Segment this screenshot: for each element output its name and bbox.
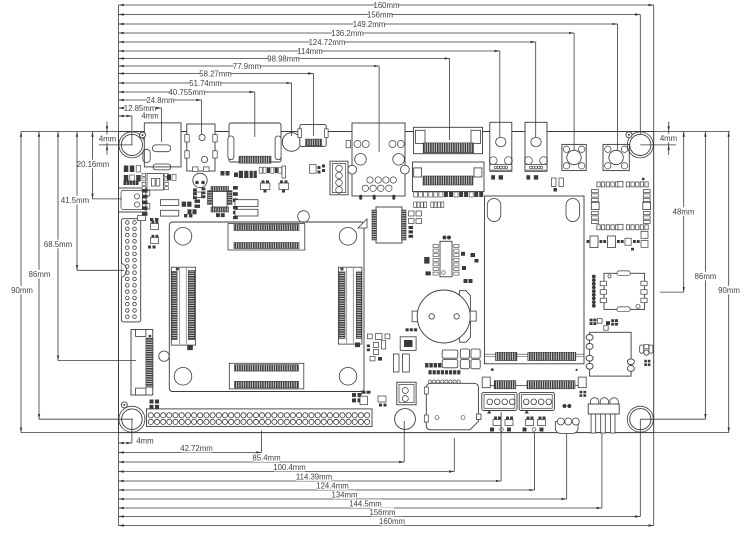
svg-text:124.4mm: 124.4mm [316,482,349,491]
svg-text:90mm: 90mm [718,286,740,295]
LVDS FPC connector J7 [414,127,483,153]
dimension 24.8mm top [119,99,202,101]
dimension 156mm top [119,14,641,16]
dimension 41.5mm left [76,132,78,271]
parts right of module bottom-right [368,334,373,339]
corner triangle mark [358,219,367,228]
dimension 40.755mm top [119,91,255,93]
2x16 pin header J12 [121,219,140,322]
fiducial bottom-left [121,402,127,408]
svg-text:114mm: 114mm [297,47,322,56]
svg-text:156mm: 156mm [370,508,396,517]
capacitor C6 [322,165,325,168]
dimension 4mm left [106,122,108,132]
left dimension extension line at board top [21,131,119,133]
column parts [409,226,414,229]
module hole BR [339,368,357,386]
left cluster resistors [124,166,129,173]
svg-text:4mm: 4mm [136,437,153,446]
FPC connector bottom-left J13 [131,330,153,396]
svg-text:86mm: 86mm [29,270,51,279]
audio jack J2 [187,124,215,171]
LVDS FPC connector J8 [413,162,485,192]
MCU QFP U5 [211,187,229,192]
resistor pair R2 [250,171,253,178]
small IC U6 [147,174,164,191]
small hole left of module [159,351,169,361]
dimension 136.2mm top [119,32,575,34]
pads near header right [352,393,356,397]
mounting hole top-right [627,132,653,158]
dark pads left [424,257,429,264]
svg-text:86mm: 86mm [695,272,717,281]
electrolytic capacitor C1 [282,133,301,152]
dimension 100.4mm bottom [119,471,455,473]
dimension 90mm right [728,132,730,433]
mid column parts below crystal [194,192,202,198]
dimension 51.74mm top [119,82,292,84]
diode D1 [138,216,146,221]
svg-text:48mm: 48mm [673,207,695,216]
dimension 42.72mm bottom [119,452,262,454]
module hole TR [339,228,357,246]
svg-text:90mm: 90mm [11,286,33,295]
dimension 48mm right [683,132,685,293]
inductor row below jack [161,200,179,206]
micro-USB connector J3 [229,123,281,162]
wifi chip footprint U2 [597,182,600,187]
RJ45 ethernet jack J5 [352,123,405,196]
dimension 134mm bottom [119,498,567,500]
USB type-C connector J11 [119,188,147,212]
mounting hole bottom-right [627,406,653,432]
dimension 68.5mm left [57,132,59,361]
capacitor column [142,189,148,193]
mPCIe slot J20 [485,196,585,364]
dimension 12.85mm top [119,107,162,109]
svg-text:124.72mm: 124.72mm [309,38,346,47]
svg-text:149.2mm: 149.2mm [353,20,386,29]
svg-text:136.2mm: 136.2mm [331,29,364,38]
transistor Q3 [310,165,317,174]
dimension 156mm bottom [119,516,641,518]
inductors L2 [393,354,399,372]
pads near header left [150,400,154,404]
dimension 77.9mm top [119,65,380,67]
72-pin GPIO header J26 [147,409,373,427]
svg-text:4mm: 4mm [141,112,158,121]
capacitor cluster below U3 [590,319,593,322]
dimension 86mm right [704,132,706,420]
bottom dimension extension line at board left [118,433,120,526]
crystal Y1 [193,173,207,187]
USB-A connector J10 [525,122,547,171]
3-pin header J25 [590,398,599,407]
dimension 20.16mm left [92,132,94,199]
tactile switch SW1 [562,144,586,170]
svg-text:160mm: 160mm [379,517,405,526]
caps row below FPC J8 [414,192,418,197]
dimension 114mm top [119,50,500,52]
buzzer BZ1 [395,409,416,430]
via column left of U3 [592,275,596,279]
tactile switch SW2 [603,144,629,170]
dimension 124.72mm top [119,41,536,43]
small parts right of U8 [461,252,465,256]
capacitor cluster near SW1 [552,178,557,187]
capacitor near RJ45 [346,141,350,148]
dimension 85.4mm bottom [119,461,405,463]
board-to-board connector right J17 [338,267,362,344]
right dimension extension line at board top [654,131,730,133]
4-pin power connector J6 [330,161,348,195]
dimension 58.27mm top [119,73,314,75]
board-to-board connector top J14 [228,224,305,250]
dimension 149.2mm top [119,23,618,25]
SOP-14 U8 [440,241,452,276]
svg-text:68.5mm: 68.5mm [44,240,72,249]
svg-text:42.72mm: 42.72mm [180,444,213,453]
dimension 4mm bottom [119,442,132,444]
svg-text:41.5mm: 41.5mm [61,196,89,205]
transistor cluster A [493,420,501,426]
dimension 86mm left [38,132,40,420]
fiducial top-right [626,132,632,138]
DC power jack J1 [144,123,181,167]
microSD slot J19 [426,383,478,430]
board-to-board connector bottom J15 [229,363,303,389]
2-pin connector J18 [397,382,416,405]
ethernet transformer T1 [590,332,632,376]
svg-text:85.4mm: 85.4mm [252,454,280,463]
module hole BL [174,368,192,386]
svg-text:51.74mm: 51.74mm [189,79,222,88]
svg-text:100.4mm: 100.4mm [273,463,306,472]
dimension 4mm right [668,122,670,132]
resistor pairs left of QFP [233,186,238,190]
top dimension extension line at board left [118,5,120,132]
board outline [119,132,654,433]
SOIC-16 U7 [376,207,402,243]
transistor Q1 [260,183,270,190]
svg-text:156mm: 156mm [367,10,393,19]
SODIMM module outline U4 [169,222,364,392]
transistor cluster B [526,420,534,426]
pads 2x2 [409,211,415,216]
svg-text:98.98mm: 98.98mm [267,54,300,63]
J8 pin comb [423,176,473,185]
dimension 98.98mm top [119,58,450,60]
hole above module [298,211,310,223]
small parts x [150,218,153,221]
svg-text:114.39mm: 114.39mm [296,473,332,482]
micro-USB pin comb [239,156,271,163]
capacitor bank [442,350,458,358]
dimension 124.4mm bottom [119,489,535,491]
capacitor row C group [259,167,262,173]
svg-text:134mm: 134mm [332,491,358,500]
svg-text:58.27mm: 58.27mm [199,69,232,78]
battery holder BT1 [412,311,425,322]
dimension 114.39mm bottom [119,480,502,482]
mounting hole bottom-left [119,406,145,432]
RF connector [644,344,649,349]
parts right of header [362,391,366,394]
dimension 160mm top [119,4,654,6]
4-pin connector J23 [519,392,554,410]
dimension 160mm bottom [119,525,654,527]
svg-text:77.9mm: 77.9mm [233,62,261,71]
mini HDMI pin comb [306,139,322,146]
dimension 144.5mm bottom [119,507,602,509]
svg-text:4mm: 4mm [660,134,677,143]
resistor pair R1 [239,171,243,178]
SOIC-8 U3 [604,273,645,309]
J7 pin comb [423,143,474,153]
inductor chain L1 [587,240,590,243]
svg-text:20.16mm: 20.16mm [77,160,110,169]
wide resistors right pair [235,200,258,207]
battery holder clip [460,291,471,343]
capacitor C5 [282,166,286,178]
QFN U9 [400,337,416,351]
caps row 2 [414,202,417,208]
transistor Q2 [279,183,289,190]
fiducial top-left [140,132,146,138]
mounting hole top-left [119,132,145,158]
mSATA connector J21 [488,385,578,387]
dimension 90mm left [20,132,22,433]
mini HDMI connector J4 [300,124,326,146]
svg-text:4mm: 4mm [99,135,116,144]
USB-A connector J9 [490,122,512,171]
board-to-board connector left J16 [171,267,195,345]
svg-text:160mm: 160mm [374,1,400,10]
4-pin connector J22 [482,392,517,410]
pads right of QFP [233,206,238,209]
resistors R5 [167,174,171,180]
module hole TL [174,228,192,246]
dimension 4mm top [119,115,132,117]
tiny caps rows [425,363,428,368]
audio jack bottom J24 [555,422,578,434]
